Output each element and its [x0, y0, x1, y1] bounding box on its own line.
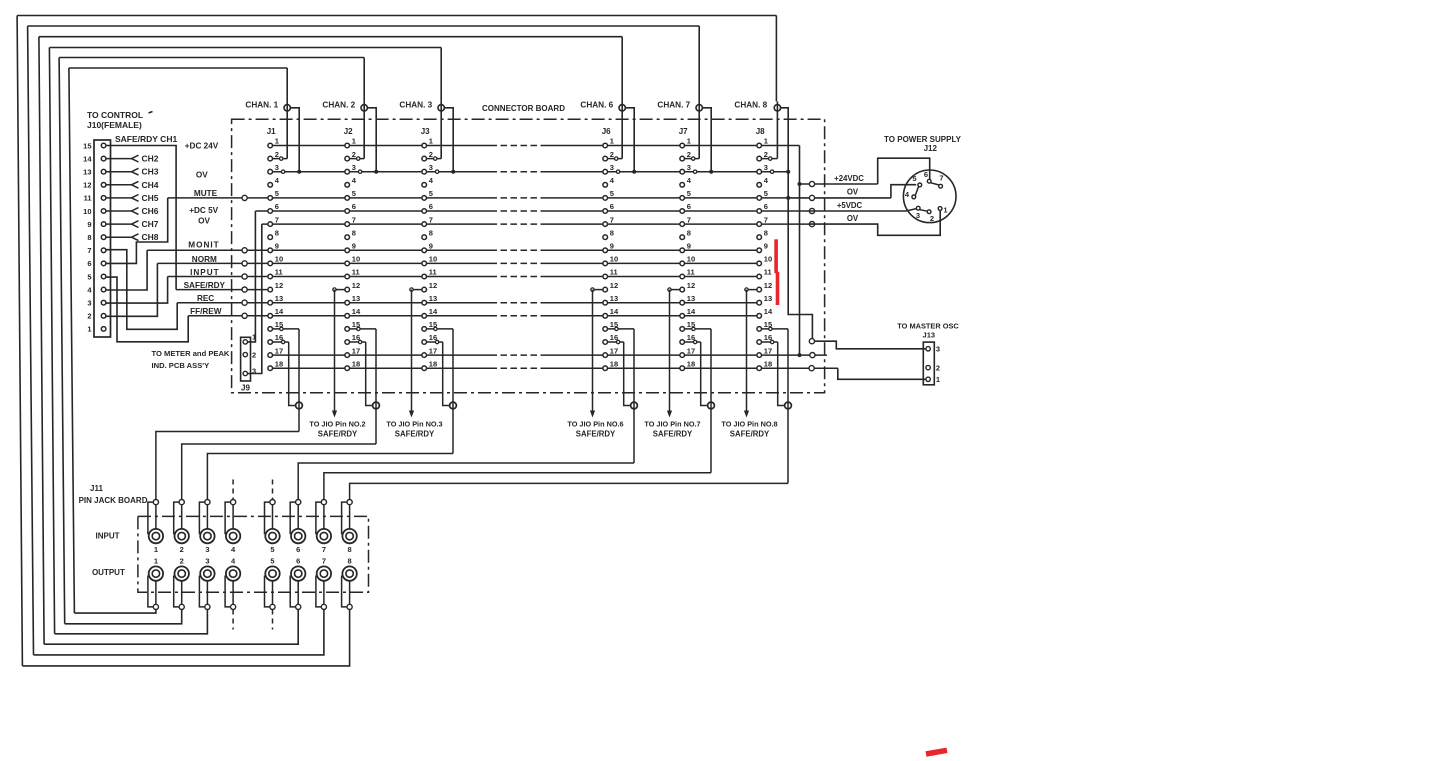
- svg-text:10: 10: [764, 255, 772, 264]
- svg-text:7: 7: [87, 246, 91, 255]
- svg-text:6: 6: [275, 202, 279, 211]
- connector board outline (dash-dot): [232, 119, 825, 392]
- wire J2 pin15 chain to board-edge jack: [350, 327, 377, 444]
- wire J3 jack to input jack 3: [207, 454, 453, 500]
- +24VDC stub to J12: [800, 158, 930, 186]
- svg-text:SAFE/RDY: SAFE/RDY: [730, 429, 770, 438]
- row17 terminal circle: [810, 353, 815, 358]
- svg-text:6: 6: [924, 170, 928, 179]
- svg-text:SAFE/RDY: SAFE/RDY: [653, 429, 693, 438]
- wire CHAN.2 branch to row3: [368, 108, 379, 174]
- svg-text:TO METER and PEAK: TO METER and PEAK: [152, 349, 230, 358]
- svg-text:NORM: NORM: [192, 255, 217, 264]
- svg-text:17: 17: [687, 346, 695, 355]
- J3 pin3 inline circle: [435, 170, 438, 173]
- svg-text:TO POWER SUPPLY: TO POWER SUPPLY: [884, 135, 962, 144]
- wire J7 jack to input jack 7: [324, 473, 711, 500]
- connector J3 pins: [422, 137, 438, 371]
- CHAN.8 jack circle: [734, 100, 780, 158]
- svg-text:1: 1: [429, 137, 433, 146]
- wire CHAN.8 branch to row3: [781, 108, 813, 339]
- svg-text:18: 18: [352, 359, 360, 368]
- wire J3 pin2 chain: [427, 157, 442, 160]
- svg-text:11: 11: [84, 194, 92, 203]
- svg-text:TO JIO Pin NO.8: TO JIO Pin NO.8: [721, 420, 777, 429]
- signal labels column: [184, 142, 226, 316]
- bus row 6 +DC5V: [255, 210, 490, 212]
- svg-text:5: 5: [912, 174, 916, 183]
- label TO MASTER OSC J13: [897, 322, 959, 340]
- svg-text:J7: J7: [679, 127, 688, 136]
- label TO J10 Pin NO.3: [386, 420, 442, 439]
- svg-text:3: 3: [252, 366, 256, 375]
- svg-text:J3: J3: [421, 127, 430, 136]
- input jack 7: [316, 500, 331, 554]
- bus row 7 OV: [262, 223, 491, 225]
- svg-text:1: 1: [154, 557, 158, 566]
- svg-text:13: 13: [352, 294, 360, 303]
- svg-text:5: 5: [610, 189, 614, 198]
- CHAN.6 jack circle: [580, 100, 625, 158]
- svg-text:+24VDC: +24VDC: [834, 174, 864, 183]
- wire J3 pin15 chain to board-edge jack: [427, 327, 454, 453]
- svg-text:7: 7: [352, 215, 356, 224]
- wire J10 pin6 to MUTE row: [106, 198, 168, 264]
- wire J10 pin7 to REC row: [106, 250, 177, 330]
- CHAN.3 jack circle: [399, 100, 444, 158]
- label TO J10 Pin NO.7: [644, 420, 700, 439]
- svg-text:8: 8: [348, 557, 352, 566]
- svg-text:2: 2: [352, 150, 356, 159]
- svg-text:3: 3: [205, 545, 209, 554]
- J8 board-edge jack circle: [785, 402, 792, 409]
- wire J2 pin12 to TO-J10 arrow: [332, 288, 345, 418]
- bus row 14 FF/REW: [188, 315, 490, 317]
- pin jack board outline (dash-dot): [138, 516, 369, 592]
- svg-text:12: 12: [687, 281, 695, 290]
- svg-text:9: 9: [352, 242, 356, 251]
- wire J2 pin2 chain: [350, 157, 365, 160]
- svg-text:7: 7: [687, 215, 691, 224]
- svg-text:18: 18: [764, 359, 772, 368]
- label TO J10 Pin NO.8: [721, 420, 777, 439]
- wire output jack 2 to CHAN.2: [59, 58, 364, 624]
- svg-text:6: 6: [610, 202, 614, 211]
- svg-text:12: 12: [429, 281, 437, 290]
- svg-text:5: 5: [275, 189, 279, 198]
- bus row 18: [270, 367, 490, 369]
- bus row 13 REC: [177, 302, 490, 304]
- output jack 7: [316, 557, 331, 610]
- stray tick mark: [149, 112, 153, 114]
- output jack 5: [265, 557, 280, 610]
- J12 pins: [905, 170, 948, 223]
- svg-text:J1: J1: [267, 127, 276, 136]
- J13 pins: [926, 345, 940, 385]
- svg-text:MUTE: MUTE: [194, 189, 218, 198]
- svg-text:8: 8: [610, 228, 614, 237]
- wire J8 pin15 chain to board-edge jack: [762, 327, 789, 483]
- svg-text:14: 14: [764, 307, 773, 316]
- wire J10 pin4 to MONIT row: [106, 250, 147, 290]
- svg-text:2: 2: [610, 150, 614, 159]
- svg-text:17: 17: [275, 346, 283, 355]
- svg-text:9: 9: [687, 242, 691, 251]
- svg-text:10: 10: [687, 255, 695, 264]
- svg-text:8: 8: [275, 228, 279, 237]
- dashed stub input jack 5: [272, 480, 274, 500]
- dashed stub output jack 4: [232, 610, 234, 630]
- svg-text:1: 1: [943, 206, 947, 215]
- svg-text:11: 11: [610, 268, 618, 277]
- svg-text:6: 6: [87, 259, 91, 268]
- wire output jack 3 to CHAN.3: [49, 48, 441, 634]
- svg-text:TO MASTER OSC: TO MASTER OSC: [897, 322, 959, 331]
- wire output jack 7 to CHAN.7: [28, 26, 700, 655]
- svg-text:13: 13: [83, 168, 91, 177]
- svg-text:5: 5: [764, 189, 768, 198]
- svg-text:1: 1: [275, 137, 279, 146]
- svg-text:3: 3: [764, 163, 768, 172]
- svg-text:9: 9: [87, 220, 91, 229]
- svg-text:5: 5: [429, 189, 433, 198]
- svg-text:14: 14: [687, 307, 696, 316]
- wire output jack 1 to CHAN.1: [69, 68, 287, 613]
- output jack 3: [199, 557, 214, 610]
- svg-text:13: 13: [610, 294, 618, 303]
- svg-text:9: 9: [764, 242, 768, 251]
- wire J1 pin15 chain to board-edge jack: [273, 327, 300, 431]
- connector J10 body: [94, 140, 111, 337]
- svg-text:TO JIO Pin NO.7: TO JIO Pin NO.7: [644, 420, 700, 429]
- svg-text:1: 1: [154, 545, 158, 554]
- svg-text:J6: J6: [602, 127, 611, 136]
- wire CHAN.6 branch to row3: [626, 108, 637, 174]
- svg-text:CH5: CH5: [142, 193, 159, 203]
- svg-text:3: 3: [610, 163, 614, 172]
- wire J10 pin15 to SAFE/RDY row: [106, 146, 176, 290]
- svg-text:7: 7: [322, 545, 326, 554]
- svg-text:2: 2: [687, 150, 691, 159]
- bus row 17: [270, 354, 490, 356]
- wire CHAN.7 branch to row3: [703, 108, 714, 174]
- svg-text:8: 8: [352, 228, 356, 237]
- connector J7 pins: [680, 137, 696, 371]
- input jack 5: [265, 500, 280, 554]
- connector J12 shell: [903, 170, 956, 223]
- svg-text:+DC 5V: +DC 5V: [189, 206, 218, 215]
- svg-text:OV: OV: [196, 170, 208, 179]
- svg-text:1: 1: [936, 375, 940, 384]
- svg-text:CHAN. 8: CHAN. 8: [734, 100, 767, 109]
- bus row 12 SAFE/RDY J1: [176, 289, 270, 291]
- wire J3 pin12 to TO-J10 arrow: [409, 288, 422, 418]
- svg-text:5: 5: [87, 272, 91, 281]
- svg-text:12: 12: [83, 181, 91, 190]
- svg-text:TO CONTROL: TO CONTROL: [87, 110, 143, 120]
- svg-text:TO JIO Pin NO.6: TO JIO Pin NO.6: [567, 420, 623, 429]
- svg-text:7: 7: [610, 215, 614, 224]
- connector J1 pins: [268, 137, 284, 371]
- bus row 9 MONIT: [147, 249, 490, 251]
- svg-text:SAFE/RDY: SAFE/RDY: [395, 429, 435, 438]
- wire J1 pin2 chain: [273, 157, 288, 160]
- dashed stub output jack 5: [272, 610, 274, 630]
- wire J7 pin12 to TO-J10 arrow: [667, 288, 680, 418]
- wire CHAN.1 branch to row3: [291, 108, 302, 174]
- connector J9 body: [241, 337, 251, 381]
- svg-text:3: 3: [936, 345, 940, 354]
- svg-text:2: 2: [252, 351, 256, 360]
- svg-text:2: 2: [764, 150, 768, 159]
- wire J1 jack to input jack 1: [156, 432, 299, 500]
- dashed stub input jack 4: [232, 480, 234, 500]
- J7 board-edge jack circle: [708, 402, 715, 409]
- OV stub to J12 pin5: [788, 185, 916, 201]
- svg-text:IND. PCB ASS'Y: IND. PCB ASS'Y: [152, 361, 210, 370]
- svg-text:6: 6: [687, 202, 691, 211]
- svg-text:J8: J8: [756, 127, 765, 136]
- svg-text:13: 13: [429, 294, 437, 303]
- J9 pins: [243, 332, 256, 375]
- output jack 6: [290, 557, 305, 610]
- svg-text:3: 3: [275, 163, 279, 172]
- svg-text:OV: OV: [847, 188, 859, 197]
- red dash mark bottom: [926, 750, 947, 754]
- svg-text:13: 13: [687, 294, 695, 303]
- output jack 4: [225, 557, 240, 610]
- svg-text:OUTPUT: OUTPUT: [92, 568, 125, 577]
- svg-text:J11: J11: [90, 484, 103, 493]
- bus row 10 NORM: [157, 262, 490, 264]
- svg-text:CHAN. 1: CHAN. 1: [245, 100, 278, 109]
- svg-text:6: 6: [296, 545, 300, 554]
- svg-text:8: 8: [87, 233, 91, 242]
- wire J10 pin3 to INPUT row: [106, 277, 168, 304]
- svg-text:TO JIO Pin NO.2: TO JIO Pin NO.2: [309, 420, 365, 429]
- svg-text:11: 11: [352, 268, 360, 277]
- svg-text:17: 17: [764, 346, 772, 355]
- input jack 4: [225, 500, 240, 554]
- connector J6 pins: [603, 137, 619, 371]
- svg-text:3: 3: [352, 163, 356, 172]
- wire J3 pin16 chain: [427, 340, 450, 405]
- svg-text:FF/REW: FF/REW: [190, 307, 222, 316]
- output jack 8: [342, 557, 357, 610]
- svg-text:10: 10: [610, 255, 618, 264]
- J10 pins: [83, 141, 106, 333]
- svg-text:SAFE/RDY: SAFE/RDY: [184, 281, 226, 290]
- svg-text:CH3: CH3: [142, 167, 159, 177]
- wire row6 to J9 pin1: [248, 211, 255, 342]
- output jack 2: [174, 557, 189, 610]
- wire J6 pin15 chain to board-edge jack: [608, 327, 635, 463]
- wire output jack 8 to CHAN.8: [17, 16, 776, 666]
- svg-text:10: 10: [352, 255, 360, 264]
- svg-text:11: 11: [275, 268, 283, 277]
- svg-text:13: 13: [764, 294, 772, 303]
- svg-text:12: 12: [352, 281, 360, 290]
- svg-text:12: 12: [275, 281, 283, 290]
- wire J8 pin12 to TO-J10 arrow: [744, 288, 757, 418]
- label TO POWER SUPPLY J12: [884, 135, 962, 153]
- wire J2 jack to input jack 2: [182, 444, 376, 500]
- svg-text:CH4: CH4: [142, 180, 159, 190]
- bus row 11 INPUT: [168, 276, 491, 278]
- svg-text:TO JIO Pin NO.3: TO JIO Pin NO.3: [386, 420, 442, 429]
- svg-text:14: 14: [429, 307, 438, 316]
- svg-text:+5VDC: +5VDC: [837, 201, 863, 210]
- svg-text:INPUT: INPUT: [96, 531, 120, 540]
- svg-text:12: 12: [764, 281, 772, 290]
- wire J6 jack to input jack 6: [298, 463, 634, 500]
- svg-text:CHAN. 2: CHAN. 2: [322, 100, 355, 109]
- connector J2 pins: [345, 137, 361, 371]
- svg-text:3: 3: [87, 299, 91, 308]
- svg-text:14: 14: [275, 307, 284, 316]
- wire J8 pin16 chain: [762, 340, 785, 405]
- svg-text:OV: OV: [847, 214, 859, 223]
- J10 CH2-CH8 arrows: [106, 154, 159, 243]
- svg-text:SAFE/RDY: SAFE/RDY: [318, 429, 358, 438]
- svg-text:J9: J9: [241, 384, 250, 393]
- svg-text:7: 7: [939, 174, 943, 183]
- svg-text:J10(FEMALE): J10(FEMALE): [87, 120, 142, 130]
- J2 board-edge jack circle: [373, 402, 380, 409]
- svg-text:18: 18: [687, 359, 695, 368]
- input jack 6: [290, 500, 305, 554]
- J6 pin3 inline circle: [616, 170, 619, 173]
- OV wire to J12 pin1: [809, 211, 940, 236]
- J12 pin straps: [915, 158, 939, 211]
- svg-text:3: 3: [687, 163, 691, 172]
- svg-text:5: 5: [687, 189, 691, 198]
- wire CHAN.3 branch to row3: [445, 108, 456, 174]
- svg-text:14: 14: [352, 307, 361, 316]
- input jack 2: [174, 500, 189, 554]
- svg-text:1: 1: [352, 137, 356, 146]
- svg-text:18: 18: [610, 359, 618, 368]
- label TO J10 Pin NO.6: [567, 420, 623, 439]
- svg-text:INPUT: INPUT: [190, 268, 220, 277]
- wire J7 pin2 chain: [685, 157, 700, 160]
- svg-text:2: 2: [429, 150, 433, 159]
- svg-text:+DC 24V: +DC 24V: [185, 142, 219, 151]
- svg-text:14: 14: [83, 154, 92, 163]
- svg-text:2: 2: [180, 545, 184, 554]
- svg-text:CH8: CH8: [142, 232, 159, 242]
- connector J13 body: [923, 342, 934, 385]
- svg-text:5: 5: [352, 189, 356, 198]
- svg-text:7: 7: [322, 557, 326, 566]
- CHAN.2 jack circle: [322, 100, 367, 158]
- svg-text:1: 1: [610, 137, 614, 146]
- svg-text:7: 7: [429, 215, 433, 224]
- svg-text:SAFE/RDY CH1: SAFE/RDY CH1: [115, 134, 177, 144]
- OV wire to J13 pin3: [809, 339, 926, 349]
- wire J6 pin12 to TO-J10 arrow: [590, 288, 603, 418]
- svg-text:17: 17: [429, 346, 437, 355]
- J1 pin3 inline circle: [281, 170, 284, 173]
- J3 board-edge jack circle: [450, 402, 457, 409]
- svg-text:7: 7: [764, 215, 768, 224]
- svg-text:CH6: CH6: [142, 206, 159, 216]
- wire J7 pin15 chain to board-edge jack: [685, 327, 712, 473]
- svg-text:8: 8: [687, 228, 691, 237]
- svg-text:2: 2: [936, 363, 940, 372]
- red annotation line near J8: [774, 239, 779, 305]
- input jack 8: [342, 500, 357, 554]
- wire J8 pin2 chain: [762, 157, 778, 160]
- svg-text:2: 2: [275, 150, 279, 159]
- wire J2 pin16 chain: [350, 340, 373, 405]
- label TO METER and PEAK: [152, 349, 230, 370]
- bus row 3 OV: [270, 171, 490, 173]
- svg-text:10: 10: [429, 255, 437, 264]
- svg-text:CONNECTOR BOARD: CONNECTOR BOARD: [482, 104, 565, 113]
- wire J10 pin2 to NORM row: [106, 263, 157, 316]
- J1 board-edge jack circle: [296, 402, 303, 409]
- wire row7 to J9 pin3: [248, 224, 262, 373]
- svg-text:5: 5: [270, 557, 274, 566]
- svg-text:6: 6: [296, 557, 300, 566]
- wire J6 pin16 chain: [608, 340, 631, 405]
- svg-text:14: 14: [610, 307, 619, 316]
- svg-text:10: 10: [275, 255, 283, 264]
- wire output jack 6 to CHAN.6: [39, 37, 622, 645]
- svg-text:REC: REC: [197, 294, 214, 303]
- svg-text:9: 9: [429, 242, 433, 251]
- svg-text:9: 9: [275, 242, 279, 251]
- svg-text:J2: J2: [344, 127, 353, 136]
- svg-text:3: 3: [429, 163, 433, 172]
- svg-text:PIN JACK BOARD: PIN JACK BOARD: [79, 496, 148, 505]
- svg-text:2: 2: [930, 214, 934, 223]
- bus row 1 +DC24V: [270, 145, 490, 147]
- svg-text:6: 6: [429, 202, 433, 211]
- connector J8 pins: [757, 137, 773, 371]
- svg-text:8: 8: [764, 228, 768, 237]
- svg-text:6: 6: [352, 202, 356, 211]
- svg-text:CHAN. 7: CHAN. 7: [657, 100, 690, 109]
- svg-text:3: 3: [916, 211, 920, 220]
- svg-text:1: 1: [87, 325, 91, 334]
- wire J1 pin16 chain: [273, 340, 296, 405]
- J2 pin3 inline circle: [358, 170, 361, 173]
- svg-text:2: 2: [87, 312, 91, 321]
- row18 wire to J13 pin1: [809, 366, 926, 380]
- wire row1 +24V down to row17: [798, 146, 802, 358]
- wire J10 pin5 to FF/REW row: [106, 277, 188, 342]
- svg-text:15: 15: [83, 141, 91, 150]
- svg-text:SAFE/RDY: SAFE/RDY: [576, 429, 616, 438]
- wire J8 jack to input jack 8: [350, 483, 788, 499]
- svg-text:6: 6: [764, 202, 768, 211]
- svg-text:18: 18: [429, 359, 437, 368]
- svg-text:8: 8: [348, 545, 352, 554]
- wire J6 pin2 chain: [608, 157, 623, 160]
- wire J7 pin16 chain: [685, 340, 708, 405]
- svg-text:J13: J13: [923, 330, 936, 339]
- J11 labels: [79, 484, 148, 577]
- svg-text:17: 17: [352, 346, 360, 355]
- svg-text:11: 11: [764, 268, 772, 277]
- svg-text:CH2: CH2: [142, 154, 159, 164]
- svg-text:1: 1: [764, 137, 768, 146]
- input jack 3: [199, 500, 214, 554]
- svg-text:CHAN. 6: CHAN. 6: [580, 100, 613, 109]
- svg-text:J12: J12: [924, 144, 938, 153]
